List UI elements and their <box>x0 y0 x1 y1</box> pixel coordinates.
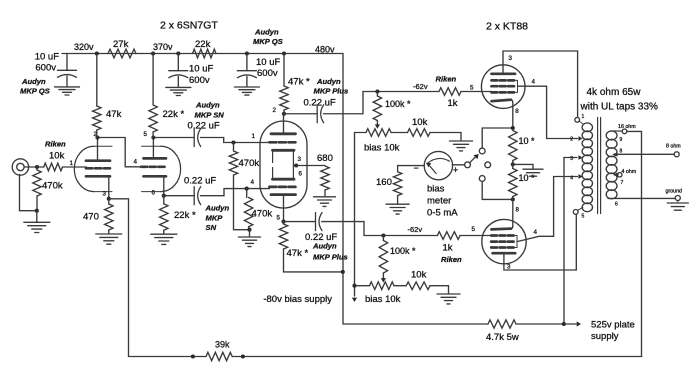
node 10uF C2 tap <box>176 51 180 55</box>
svg-text:600v: 600v <box>35 63 56 74</box>
svg-text:Audyn: Audyn <box>21 77 46 86</box>
svg-text:370v: 370v <box>153 42 173 52</box>
svg-text:5: 5 <box>582 214 585 220</box>
resistor 27k <box>108 49 136 58</box>
node KT88 lower cathode <box>511 197 515 201</box>
resistor 22k* cathode V1b <box>163 196 165 204</box>
ground 160 <box>386 203 409 205</box>
KT88 lower beam plate <box>514 236 517 248</box>
svg-text:bias 10k: bias 10k <box>364 143 400 154</box>
svg-text:0.22 uF: 0.22 uF <box>184 176 216 187</box>
svg-text:5: 5 <box>277 215 281 222</box>
svg-text:47k *: 47k * <box>288 77 310 88</box>
svg-text:10 *: 10 * <box>519 136 536 146</box>
svg-text:MKP: MKP <box>206 214 224 223</box>
svg-text:2: 2 <box>273 107 277 114</box>
svg-text:10k: 10k <box>49 151 65 162</box>
transformer UL tap 4 <box>578 174 582 179</box>
svg-text:MKP Plus: MKP Plus <box>314 87 349 96</box>
transformer primary terminal 1 <box>575 117 580 122</box>
svg-text:Audyn: Audyn <box>316 77 341 86</box>
node V1a plate 2 <box>95 135 99 139</box>
secondary 16 ohm tap <box>612 130 623 132</box>
capacitor 10uF 600v C2 <box>177 54 179 71</box>
svg-text:8: 8 <box>516 207 520 214</box>
svg-text:−: − <box>414 163 419 173</box>
svg-text:16 ohm: 16 ohm <box>618 124 636 130</box>
svg-text:2 x KT88: 2 x KT88 <box>486 21 528 33</box>
resistor 47k plate load V1a <box>96 54 98 107</box>
svg-text:100k *: 100k * <box>385 99 411 109</box>
resistor 47k* upper <box>283 54 285 87</box>
svg-text:4: 4 <box>251 179 255 186</box>
resistor 100k* upper <box>376 92 378 97</box>
svg-text:6: 6 <box>615 202 618 208</box>
svg-text:meter: meter <box>427 196 451 207</box>
node input ground <box>35 209 39 213</box>
ground speaker return <box>677 201 679 203</box>
svg-text:MKP Plus: MKP Plus <box>313 253 348 262</box>
node cathode resistors ground <box>511 162 515 166</box>
tube KT88 lower envelope <box>482 219 526 263</box>
resistor 22k* plate load V1b <box>152 54 154 106</box>
svg-text:Audyn: Audyn <box>254 28 279 37</box>
svg-text:3: 3 <box>103 191 107 198</box>
svg-text:4k ohm 65w: 4k ohm 65w <box>587 87 642 98</box>
wire meter plus to switch <box>453 164 465 166</box>
arrow -80v bias supply <box>352 298 357 302</box>
V1b cathode <box>144 175 167 178</box>
svg-text:-62v: -62v <box>413 82 428 91</box>
node Audyn QS cap tap <box>245 51 249 55</box>
svg-text:22k *: 22k * <box>174 210 196 221</box>
svg-text:0-5 mA: 0-5 mA <box>427 208 458 219</box>
resistor 160 <box>393 172 401 196</box>
svg-text:+: + <box>453 165 458 175</box>
svg-text:9: 9 <box>620 137 623 143</box>
V2 cathode1 <box>273 149 295 152</box>
wire 525v supply line right of 4.7k <box>516 323 576 325</box>
svg-text:1k: 1k <box>448 98 458 109</box>
wire switch to lower cathode <box>482 181 513 199</box>
svg-text:MKP SN: MKP SN <box>195 111 225 120</box>
svg-text:470k: 470k <box>42 181 63 192</box>
wire feedback bottom <box>109 199 206 357</box>
node 39k left <box>191 354 195 358</box>
node V2 plate2 <box>281 220 285 224</box>
ground C3 <box>234 86 259 88</box>
V1b plate <box>144 157 167 160</box>
transformer secondary winding <box>606 131 617 140</box>
svg-text:6: 6 <box>299 171 303 178</box>
V1a plate <box>86 159 110 162</box>
svg-text:Riken: Riken <box>45 140 66 149</box>
node -62v upper <box>375 89 379 93</box>
svg-text:bias 10k: bias 10k <box>365 294 401 305</box>
node 480v feed lower <box>341 270 345 274</box>
svg-text:7: 7 <box>621 180 624 186</box>
switch common <box>465 162 471 168</box>
switch contact upper <box>479 148 485 154</box>
svg-text:3: 3 <box>570 156 573 162</box>
KT88 lower screen lead pin 4 <box>517 177 578 242</box>
node V2 cathodes 3 6 <box>294 163 298 167</box>
svg-text:Audyn: Audyn <box>205 204 230 213</box>
V2 grid1 <box>269 141 276 144</box>
svg-text:with UL taps 33%: with UL taps 33% <box>580 102 659 113</box>
KT88 lower plate <box>493 252 516 255</box>
resistor 470k input <box>36 167 38 170</box>
triode V1b 6SN7 envelope <box>142 145 161 147</box>
ground 470k pair <box>249 230 251 237</box>
svg-text:4: 4 <box>532 79 536 86</box>
svg-text:2: 2 <box>570 137 573 143</box>
resistor 470k grid2 V2 <box>246 189 248 198</box>
svg-text:47k: 47k <box>106 109 122 120</box>
node V1a cathode 3 <box>107 197 111 201</box>
V2 plate2 <box>271 193 296 196</box>
ground C1 <box>55 86 80 88</box>
switch contact middle <box>485 162 491 168</box>
V1b grid <box>141 165 147 168</box>
svg-text:0.22 uF: 0.22 uF <box>188 121 220 132</box>
wire switch to upper cathode <box>482 128 513 148</box>
svg-text:5: 5 <box>472 226 476 233</box>
ground bias lower <box>437 293 460 295</box>
tube V2 6SN7 envelope <box>260 121 307 208</box>
transformer center tap 3 <box>564 157 577 159</box>
svg-text:1: 1 <box>252 133 256 140</box>
node V2 plate1 47k <box>282 112 286 116</box>
svg-text:3: 3 <box>507 264 511 271</box>
arrow 525v plate supply <box>577 321 581 326</box>
transformer primary winding <box>582 123 592 132</box>
svg-text:525v plate: 525v plate <box>591 320 635 331</box>
svg-text:4: 4 <box>534 229 538 236</box>
svg-text:4: 4 <box>570 176 573 182</box>
svg-text:470k: 470k <box>239 158 260 169</box>
ground C2 <box>166 86 191 88</box>
KT88 upper beam plate <box>514 80 518 92</box>
svg-text:SN: SN <box>206 223 217 232</box>
svg-text:Riken: Riken <box>436 75 457 84</box>
node V1b plate 5 <box>151 135 155 139</box>
svg-text:10 uF: 10 uF <box>256 57 280 68</box>
svg-text:680: 680 <box>317 153 333 164</box>
svg-text:2 x 6SN7GT: 2 x 6SN7GT <box>160 20 218 32</box>
resistor 470 cathode V1a <box>108 199 110 204</box>
wire center tap to 525v <box>563 158 565 325</box>
svg-text:bias: bias <box>427 184 445 195</box>
resistor 10k Riken input <box>44 163 63 171</box>
svg-text:Riken: Riken <box>441 255 462 264</box>
secondary 4 ohm tap <box>614 172 618 177</box>
svg-text:1: 1 <box>582 114 585 120</box>
svg-text:4: 4 <box>134 159 138 166</box>
svg-text:480v: 480v <box>315 45 335 55</box>
svg-text:8: 8 <box>620 149 623 155</box>
svg-text:MKP QS: MKP QS <box>20 87 50 96</box>
svg-text:5: 5 <box>144 131 148 138</box>
ground 680 <box>314 196 336 198</box>
node 320v <box>95 51 99 55</box>
node 470k common <box>247 228 251 232</box>
resistor 1k Riken upper <box>439 88 461 96</box>
wire top B+ rail 480v <box>62 54 488 325</box>
svg-text:-80v bias supply: -80v bias supply <box>263 294 332 305</box>
svg-text:47k *: 47k * <box>287 248 309 259</box>
switch contact lower <box>479 176 485 182</box>
V1a grid <box>86 167 92 170</box>
V2 plate1 <box>271 132 296 135</box>
svg-text:4.7k 5w: 4.7k 5w <box>486 332 519 343</box>
wire bias feed vertical <box>354 133 356 297</box>
svg-text:10k: 10k <box>411 270 427 281</box>
svg-text:470k: 470k <box>252 209 273 220</box>
V2 grid2 <box>269 186 276 189</box>
wire input to grid <box>24 166 44 168</box>
resistor 10 lower cathode <box>512 164 514 168</box>
KT88 upper screen lead pin 4 <box>518 86 578 138</box>
potentiometer bias 10k lower <box>355 285 370 287</box>
svg-text:1k: 1k <box>443 243 453 254</box>
ground input <box>36 211 38 222</box>
tube KT88 upper envelope <box>481 65 525 109</box>
ground bias upper <box>450 140 473 142</box>
svg-text:3: 3 <box>298 156 302 163</box>
svg-text:6: 6 <box>152 190 156 197</box>
secondary ground tap <box>608 197 675 199</box>
transformer primary terminal 5 <box>573 210 578 215</box>
switch blade <box>470 157 476 163</box>
svg-text:22k *: 22k * <box>163 109 185 120</box>
resistor 1k Riken lower <box>437 232 460 240</box>
svg-text:ground: ground <box>666 189 683 195</box>
capacitor 10uF 600v C1 <box>66 54 68 71</box>
svg-text:-62v: -62v <box>408 225 423 234</box>
node bias lower tap <box>352 284 356 288</box>
secondary 8 ohm tap <box>614 152 618 157</box>
svg-text:4 ohm: 4 ohm <box>622 169 637 175</box>
wire V1a plate to V1b grid <box>98 138 142 167</box>
svg-text:39k: 39k <box>215 340 230 350</box>
svg-text:10 *: 10 * <box>519 173 536 183</box>
ground 22k cathode <box>151 233 177 235</box>
node V1b cathode 6 <box>162 194 166 198</box>
ground cathode resistors <box>513 164 533 168</box>
wire meter minus to 160 <box>398 166 425 172</box>
svg-text:10k: 10k <box>412 117 428 128</box>
node V2 grid2 <box>245 187 249 191</box>
KT88 upper plate <box>492 72 516 75</box>
svg-text:Audyn: Audyn <box>312 242 337 251</box>
node KT88 upper cathode <box>511 126 515 130</box>
resistor 4.7k 5w <box>488 320 516 328</box>
svg-text:100k *: 100k * <box>390 246 416 256</box>
resistor 470k grid1 V2 <box>233 143 235 152</box>
KT88 lower grids <box>491 234 497 237</box>
V1a cathode <box>86 175 110 178</box>
node V2 grid1 <box>231 140 235 144</box>
svg-text:160: 160 <box>376 177 392 188</box>
svg-text:320v: 320v <box>74 42 94 52</box>
svg-text:Audyn: Audyn <box>195 101 220 110</box>
svg-text:8 ohm: 8 ohm <box>666 144 681 150</box>
node 480v <box>282 51 286 55</box>
wire jack sleeve <box>20 175 37 211</box>
svg-text:3: 3 <box>509 55 513 62</box>
node -62v lower <box>381 233 385 237</box>
node 370v <box>151 51 155 55</box>
svg-text:27k: 27k <box>113 39 129 50</box>
resistor 680 <box>296 165 325 167</box>
resistor 100k* lower <box>382 236 384 241</box>
transformer core <box>597 118 599 214</box>
svg-text:supply: supply <box>591 331 619 342</box>
svg-text:MKP QS: MKP QS <box>253 37 283 46</box>
svg-text:10 uF: 10 uF <box>189 64 213 75</box>
input jack J1 <box>12 159 28 175</box>
resistor 10 upper cathode <box>509 131 517 161</box>
svg-text:600v: 600v <box>189 75 210 86</box>
svg-text:22k: 22k <box>195 39 211 50</box>
resistor 10k upper <box>408 129 431 137</box>
svg-text:5: 5 <box>470 85 474 92</box>
capacitor 10uF 600v C3 Audyn MKP QS <box>246 54 248 71</box>
resistor 22k <box>193 49 217 58</box>
node 39k right <box>241 354 245 358</box>
wire feedback from 16 ohm <box>627 131 642 356</box>
ground 470 <box>96 233 122 235</box>
triode V1a 6SN7 envelope <box>94 145 112 147</box>
potentiometer bias 10k upper <box>355 132 367 134</box>
resistor 39k <box>206 352 232 360</box>
meter bias 0-5mA <box>424 151 452 179</box>
svg-text:1: 1 <box>70 160 74 167</box>
node input <box>35 165 39 169</box>
node 525v <box>562 322 566 326</box>
svg-text:8: 8 <box>515 108 519 115</box>
resistor 10k lower <box>406 282 430 290</box>
V2 cathode2 <box>273 178 295 181</box>
transformer UL tap 2 <box>578 136 582 141</box>
svg-text:470: 470 <box>83 212 99 223</box>
svg-text:0.22 uF: 0.22 uF <box>304 98 336 109</box>
KT88 upper grids <box>492 79 498 82</box>
KT88 upper cathode <box>492 100 512 102</box>
KT88 lower cathode <box>512 199 514 226</box>
svg-text:600v: 600v <box>257 68 278 79</box>
svg-text:10 uF: 10 uF <box>35 52 59 63</box>
